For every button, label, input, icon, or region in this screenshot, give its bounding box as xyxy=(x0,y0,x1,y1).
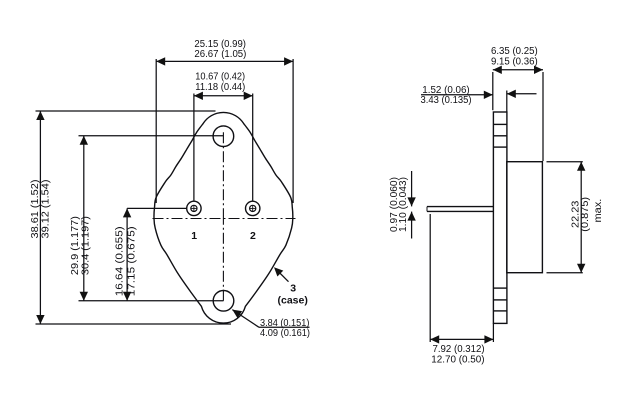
svg-text:30.4 (1.197): 30.4 (1.197) xyxy=(81,216,92,275)
dim pin row to hole 17.15 xyxy=(114,208,186,300)
dim pin length 12.70 xyxy=(430,214,493,365)
svg-text:26.67 (1.05): 26.67 (1.05) xyxy=(194,49,246,60)
dim can diameter 22.23 max xyxy=(547,162,605,273)
pin 2 xyxy=(246,201,260,215)
svg-text:4.09 (0.161): 4.09 (0.161) xyxy=(260,328,310,339)
dim flange thickness 3.43 xyxy=(421,85,537,112)
dim pin spacing 11.18 xyxy=(194,72,253,201)
pin 1 xyxy=(187,201,201,215)
svg-text:6.35 (0.25): 6.35 (0.25) xyxy=(491,46,538,57)
svg-text:9.15 (0.36): 9.15 (0.36) xyxy=(491,57,538,68)
dim hole spacing 30.4 xyxy=(70,136,224,301)
svg-text:17.15 (0.675): 17.15 (0.675) xyxy=(127,226,138,296)
can (cap) xyxy=(507,162,543,273)
svg-text:39.12 (1.54): 39.12 (1.54) xyxy=(41,180,52,239)
dim flange height 39.12 xyxy=(30,111,231,324)
svg-text:16.64 (0.655): 16.64 (0.655) xyxy=(114,226,125,296)
vertical centerline xyxy=(222,132,224,219)
svg-text:max.: max. xyxy=(592,199,604,223)
dim flange width 26.67 xyxy=(156,39,293,203)
dim pin thickness 1.10 xyxy=(389,171,416,239)
svg-text:29.9 (1.177): 29.9 (1.177) xyxy=(70,216,81,275)
svg-text:3.43 (0.135): 3.43 (0.135) xyxy=(421,95,472,106)
bottom mounting hole xyxy=(213,291,234,312)
svg-text:12.70 (0.50): 12.70 (0.50) xyxy=(431,354,484,365)
flange edge serrations top xyxy=(493,124,507,147)
svg-text:1: 1 xyxy=(191,230,197,242)
svg-text:3: 3 xyxy=(290,282,296,294)
svg-text:1.10 (0.043): 1.10 (0.043) xyxy=(398,177,409,232)
svg-text:2: 2 xyxy=(250,230,256,242)
flange edge serrations bottom xyxy=(493,288,507,311)
svg-text:11.18 (0.44): 11.18 (0.44) xyxy=(195,82,245,93)
top mounting hole xyxy=(213,126,234,147)
pin (side view) xyxy=(427,207,493,212)
hole diameter leader 4.09 xyxy=(232,310,310,340)
flange outline xyxy=(154,112,293,323)
svg-text:(case): (case) xyxy=(278,294,308,306)
horizontal centerline xyxy=(153,218,296,220)
side view flange plate xyxy=(493,112,507,323)
dim seating to cap top 9.15 xyxy=(491,46,543,161)
case label 3 with arrow xyxy=(274,267,308,306)
